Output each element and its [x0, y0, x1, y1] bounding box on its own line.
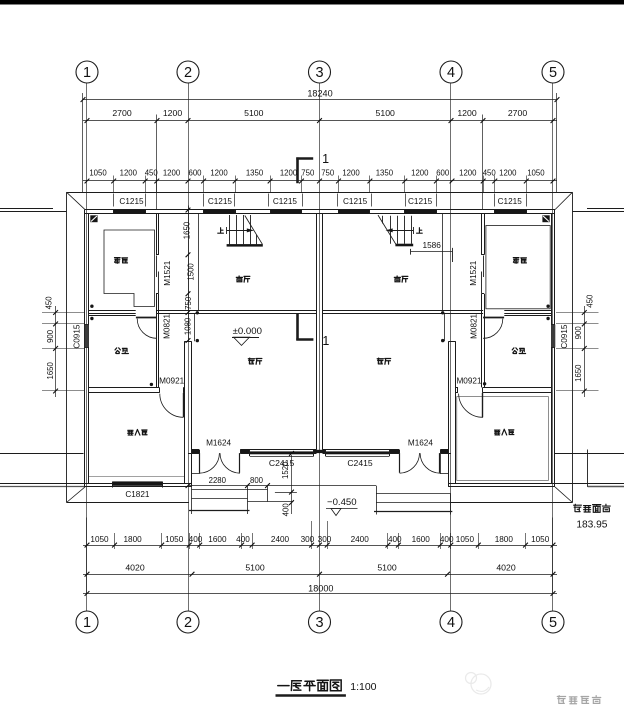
svg-text:1200: 1200 [210, 169, 228, 178]
bath bottom wall right (M0921 opening) [456, 387, 458, 389]
svg-text:M0821: M0821 [163, 313, 172, 338]
svg-text:2: 2 [184, 615, 192, 631]
bath bottom wall left (M0921 opening) [89, 387, 160, 389]
watermark text [557, 696, 600, 704]
svg-text:1200: 1200 [457, 108, 476, 118]
stairs left: treads [229, 215, 231, 244]
svg-text:C1215: C1215 [343, 197, 368, 206]
svg-text:M1624: M1624 [206, 439, 231, 448]
svg-text:1200: 1200 [163, 169, 181, 178]
porch steps left [192, 489, 268, 491]
window C1215 #3 [270, 210, 301, 214]
door M0821 left: leaf + swing [136, 317, 157, 319]
svg-text:1600: 1600 [208, 535, 227, 544]
svg-text:2700: 2700 [112, 108, 131, 118]
dining edge line left [198, 214, 200, 311]
section mark 1 (bottom) [296, 314, 299, 341]
stair up char right [416, 228, 422, 233]
room label kitchen left [115, 258, 121, 264]
window C1215 #5 [405, 210, 436, 214]
window C1215 #4 [339, 210, 370, 214]
stairs right: bottom bar [395, 244, 413, 247]
svg-text:3: 3 [315, 615, 323, 631]
svg-text:2: 2 [184, 65, 192, 81]
column marker top-left [90, 215, 97, 222]
grid line 3 [319, 83, 321, 611]
svg-text:M0921: M0921 [456, 376, 481, 385]
svg-text:900: 900 [46, 329, 55, 343]
svg-text:C1821: C1821 [125, 490, 150, 499]
grid bubble 1 bottom [76, 611, 98, 633]
recessed entry wall (center bottom) [192, 449, 200, 451]
svg-text:±0.000: ±0.000 [233, 326, 262, 337]
svg-text:750: 750 [184, 296, 193, 310]
double door M1624 left [199, 453, 201, 473]
svg-text:4020: 4020 [125, 563, 144, 573]
door M0921 left: leaf + swing [183, 393, 185, 417]
grid bubble 5 top [542, 61, 564, 83]
junction dots [90, 305, 93, 308]
cased opening jamb right [444, 314, 446, 342]
svg-text:750: 750 [301, 169, 315, 178]
room label bath left [115, 348, 120, 354]
svg-text:−0.450: −0.450 [327, 497, 357, 508]
entry wall filled piers [192, 450, 200, 453]
room label dining left [236, 276, 242, 282]
door M0821 right: leaf + swing [483, 317, 504, 319]
svg-text:1: 1 [322, 152, 329, 166]
room label dining right [394, 276, 400, 282]
svg-text:1: 1 [83, 615, 91, 631]
cased opening jamb left [194, 314, 196, 342]
stairs left: up arrow [227, 230, 248, 232]
room label elder bedroom left [128, 430, 133, 435]
svg-text:4: 4 [447, 615, 455, 631]
svg-text:4020: 4020 [496, 563, 515, 573]
svg-text:400: 400 [236, 535, 250, 544]
window C0915 right [551, 325, 555, 348]
dim row 2700/1200/5100 [83, 120, 557, 122]
window C0915 left [85, 325, 89, 348]
svg-text:C1215: C1215 [273, 197, 298, 206]
entry side jamb left [199, 453, 201, 474]
entry door jambs [199, 450, 201, 453]
watermark logo [466, 673, 492, 695]
right side dim chain 450/900/1650 [584, 306, 586, 397]
svg-text:5: 5 [549, 615, 557, 631]
window C1215 #2 [204, 210, 235, 214]
svg-text:900: 900 [574, 326, 583, 340]
svg-text:M0821: M0821 [470, 313, 479, 338]
svg-text:5100: 5100 [244, 108, 263, 118]
svg-text:2700: 2700 [508, 108, 527, 118]
svg-text:1600: 1600 [412, 535, 431, 544]
svg-text:2400: 2400 [351, 535, 370, 544]
room label bath right [512, 348, 517, 354]
neighbor wall lines bottom-right [555, 453, 624, 455]
stairs right: cut diagonal [378, 215, 396, 244]
stairs right: up arrow [389, 230, 413, 232]
svg-text:1050: 1050 [527, 169, 545, 178]
svg-text:600: 600 [188, 169, 202, 178]
kitchen wall left (M1521 opening) [156, 214, 158, 255]
svg-text:450: 450 [483, 169, 497, 178]
building area label [574, 504, 582, 511]
svg-text:C1215: C1215 [208, 197, 233, 206]
svg-text:1: 1 [83, 65, 91, 81]
grid bubble 3 top [309, 61, 331, 83]
entry side jamb right [440, 453, 442, 474]
neighbor wall lines top-left [0, 208, 53, 210]
double door M1624 right [399, 453, 401, 473]
svg-text:1200: 1200 [342, 169, 360, 178]
svg-text:1: 1 [322, 334, 329, 348]
svg-text:450: 450 [145, 169, 159, 178]
grid bubble 5 bottom [542, 611, 564, 633]
svg-text:M0921: M0921 [159, 376, 184, 385]
svg-text:5100: 5100 [377, 563, 396, 573]
stair up char left [218, 228, 224, 233]
grid line 5 [552, 83, 554, 611]
svg-text:18240: 18240 [307, 89, 332, 99]
dim row 18240 [83, 99, 557, 101]
interior dim chain left 1650/1500/750/1080 [188, 206, 190, 342]
kitchen counter left [104, 230, 155, 307]
svg-text:C1215: C1215 [498, 197, 523, 206]
svg-text:2400: 2400 [271, 535, 290, 544]
porch dim 2280/800 [188, 485, 376, 487]
bedroom inner finish line left [89, 476, 184, 478]
bedroom inner finish rect right [457, 397, 549, 481]
grid bubble 2 bottom [177, 611, 199, 633]
grid bubble 3 bottom [309, 611, 331, 633]
svg-text:C2415: C2415 [347, 458, 373, 468]
svg-text:1350: 1350 [246, 169, 264, 178]
svg-text:800: 800 [250, 476, 264, 485]
porch steps right [376, 493, 451, 495]
svg-text:1050: 1050 [89, 169, 107, 178]
svg-text:C2415: C2415 [269, 458, 295, 468]
grid bubble 4 bottom [440, 611, 462, 633]
eave outline [67, 192, 573, 194]
svg-text:1200: 1200 [280, 169, 298, 178]
svg-text:1650: 1650 [574, 364, 583, 382]
window C2415 left [250, 451, 314, 454]
door M0921 right: leaf + swing [482, 393, 484, 417]
black top bar [0, 0, 624, 5]
svg-text:1350: 1350 [376, 169, 394, 178]
svg-text:1800: 1800 [123, 535, 142, 544]
wing bottom wall left [85, 483, 192, 485]
sliding door M1521 left [156, 256, 158, 278]
svg-text:1050: 1050 [456, 535, 475, 544]
svg-text:1200: 1200 [499, 169, 517, 178]
svg-text:M1624: M1624 [408, 439, 433, 448]
neighbor wall lines bottom-left [0, 453, 84, 455]
kitchen counter right [486, 226, 550, 309]
window C1215 #1 [114, 210, 146, 214]
dim row 18000 [83, 593, 557, 595]
svg-text:1200: 1200 [163, 108, 182, 118]
svg-text:183.95: 183.95 [576, 520, 607, 531]
svg-text:300: 300 [301, 535, 315, 544]
eave corner diagonals [67, 192, 86, 209]
stairwell opening band left [235, 210, 237, 214]
svg-text:2280: 2280 [209, 476, 227, 485]
svg-text:18000: 18000 [308, 584, 333, 594]
outer wall right [554, 210, 556, 487]
svg-text:1050: 1050 [531, 535, 550, 544]
dining/living boundary + bath top walls [89, 310, 136, 312]
svg-text:1:100: 1:100 [350, 681, 376, 693]
dim row small bottom [83, 545, 557, 547]
svg-text:1586: 1586 [422, 240, 441, 250]
svg-text:M1521: M1521 [163, 260, 172, 285]
grid line 1 [86, 83, 88, 611]
svg-text:5: 5 [549, 65, 557, 81]
svg-text:750: 750 [321, 169, 335, 178]
svg-text:400: 400 [189, 535, 203, 544]
left side dim chain 450/900/1650 [55, 306, 57, 397]
svg-text:C0915: C0915 [560, 324, 569, 349]
column marker top-right [542, 215, 549, 222]
section mark 1 (top) [296, 157, 299, 183]
bath top wall inner lines [89, 315, 136, 317]
dim row 4020/5100 [83, 574, 557, 576]
stairs left: cut diagonal [245, 216, 263, 245]
svg-text:3: 3 [315, 65, 323, 81]
dim row small top [83, 180, 557, 182]
svg-text:1200: 1200 [411, 169, 429, 178]
svg-text:5100: 5100 [376, 108, 395, 118]
grid bubble 4 top [440, 61, 462, 83]
svg-text:C1215: C1215 [119, 197, 144, 206]
stair dim 1586 [411, 251, 453, 253]
svg-text:1080: 1080 [184, 317, 193, 335]
svg-text:300: 300 [318, 535, 332, 544]
title: first floor plan [278, 685, 289, 687]
grid line 2 [188, 83, 190, 611]
wall on grid 4 [455, 341, 457, 483]
center step dim 1520/400 [291, 455, 293, 514]
party wall (grid 3) [316, 214, 318, 450]
room label living left [248, 358, 254, 364]
svg-text:400: 400 [282, 503, 291, 517]
wing bottom wall right [449, 483, 556, 485]
svg-text:1200: 1200 [120, 169, 138, 178]
svg-text:450: 450 [45, 296, 54, 310]
room label living right [377, 358, 383, 364]
kitchen wall right (M1521 opening) [484, 214, 486, 255]
svg-text:1050: 1050 [165, 535, 184, 544]
svg-text:5100: 5100 [245, 563, 264, 573]
svg-text:400: 400 [388, 535, 402, 544]
neighbor wall lines top-right [587, 208, 624, 210]
stairs right: treads [390, 216, 392, 244]
svg-text:M1521: M1521 [469, 260, 478, 285]
svg-text:400: 400 [440, 535, 454, 544]
svg-text:C0915: C0915 [73, 324, 82, 349]
wall on grid 2 [184, 341, 186, 483]
outer wall left [84, 210, 86, 487]
dining edge line right [442, 214, 444, 311]
svg-text:4: 4 [447, 65, 455, 81]
window C2415 right [326, 451, 390, 454]
svg-text:1650: 1650 [46, 361, 55, 379]
outer wall top [85, 209, 555, 211]
grid bubble 2 top [177, 61, 199, 83]
svg-text:1800: 1800 [495, 535, 514, 544]
room label elder bedroom right [495, 430, 500, 435]
svg-text:1200: 1200 [459, 169, 477, 178]
svg-text:1050: 1050 [90, 535, 109, 544]
sliding door M1521 right [483, 256, 485, 278]
svg-text:450: 450 [585, 294, 594, 308]
grid bubble 1 top [76, 61, 98, 83]
svg-text:1500: 1500 [187, 263, 196, 281]
room label kitchen right [513, 258, 519, 264]
window C1821 left wing [113, 481, 162, 485]
svg-text:600: 600 [436, 169, 450, 178]
svg-text:C1215: C1215 [408, 197, 433, 206]
stairs left: bottom bar [227, 244, 263, 247]
window C1215 #6 [495, 210, 527, 214]
grid line 4 [450, 83, 452, 611]
stairwell opening band right [369, 210, 371, 214]
svg-text:1650: 1650 [183, 221, 192, 239]
